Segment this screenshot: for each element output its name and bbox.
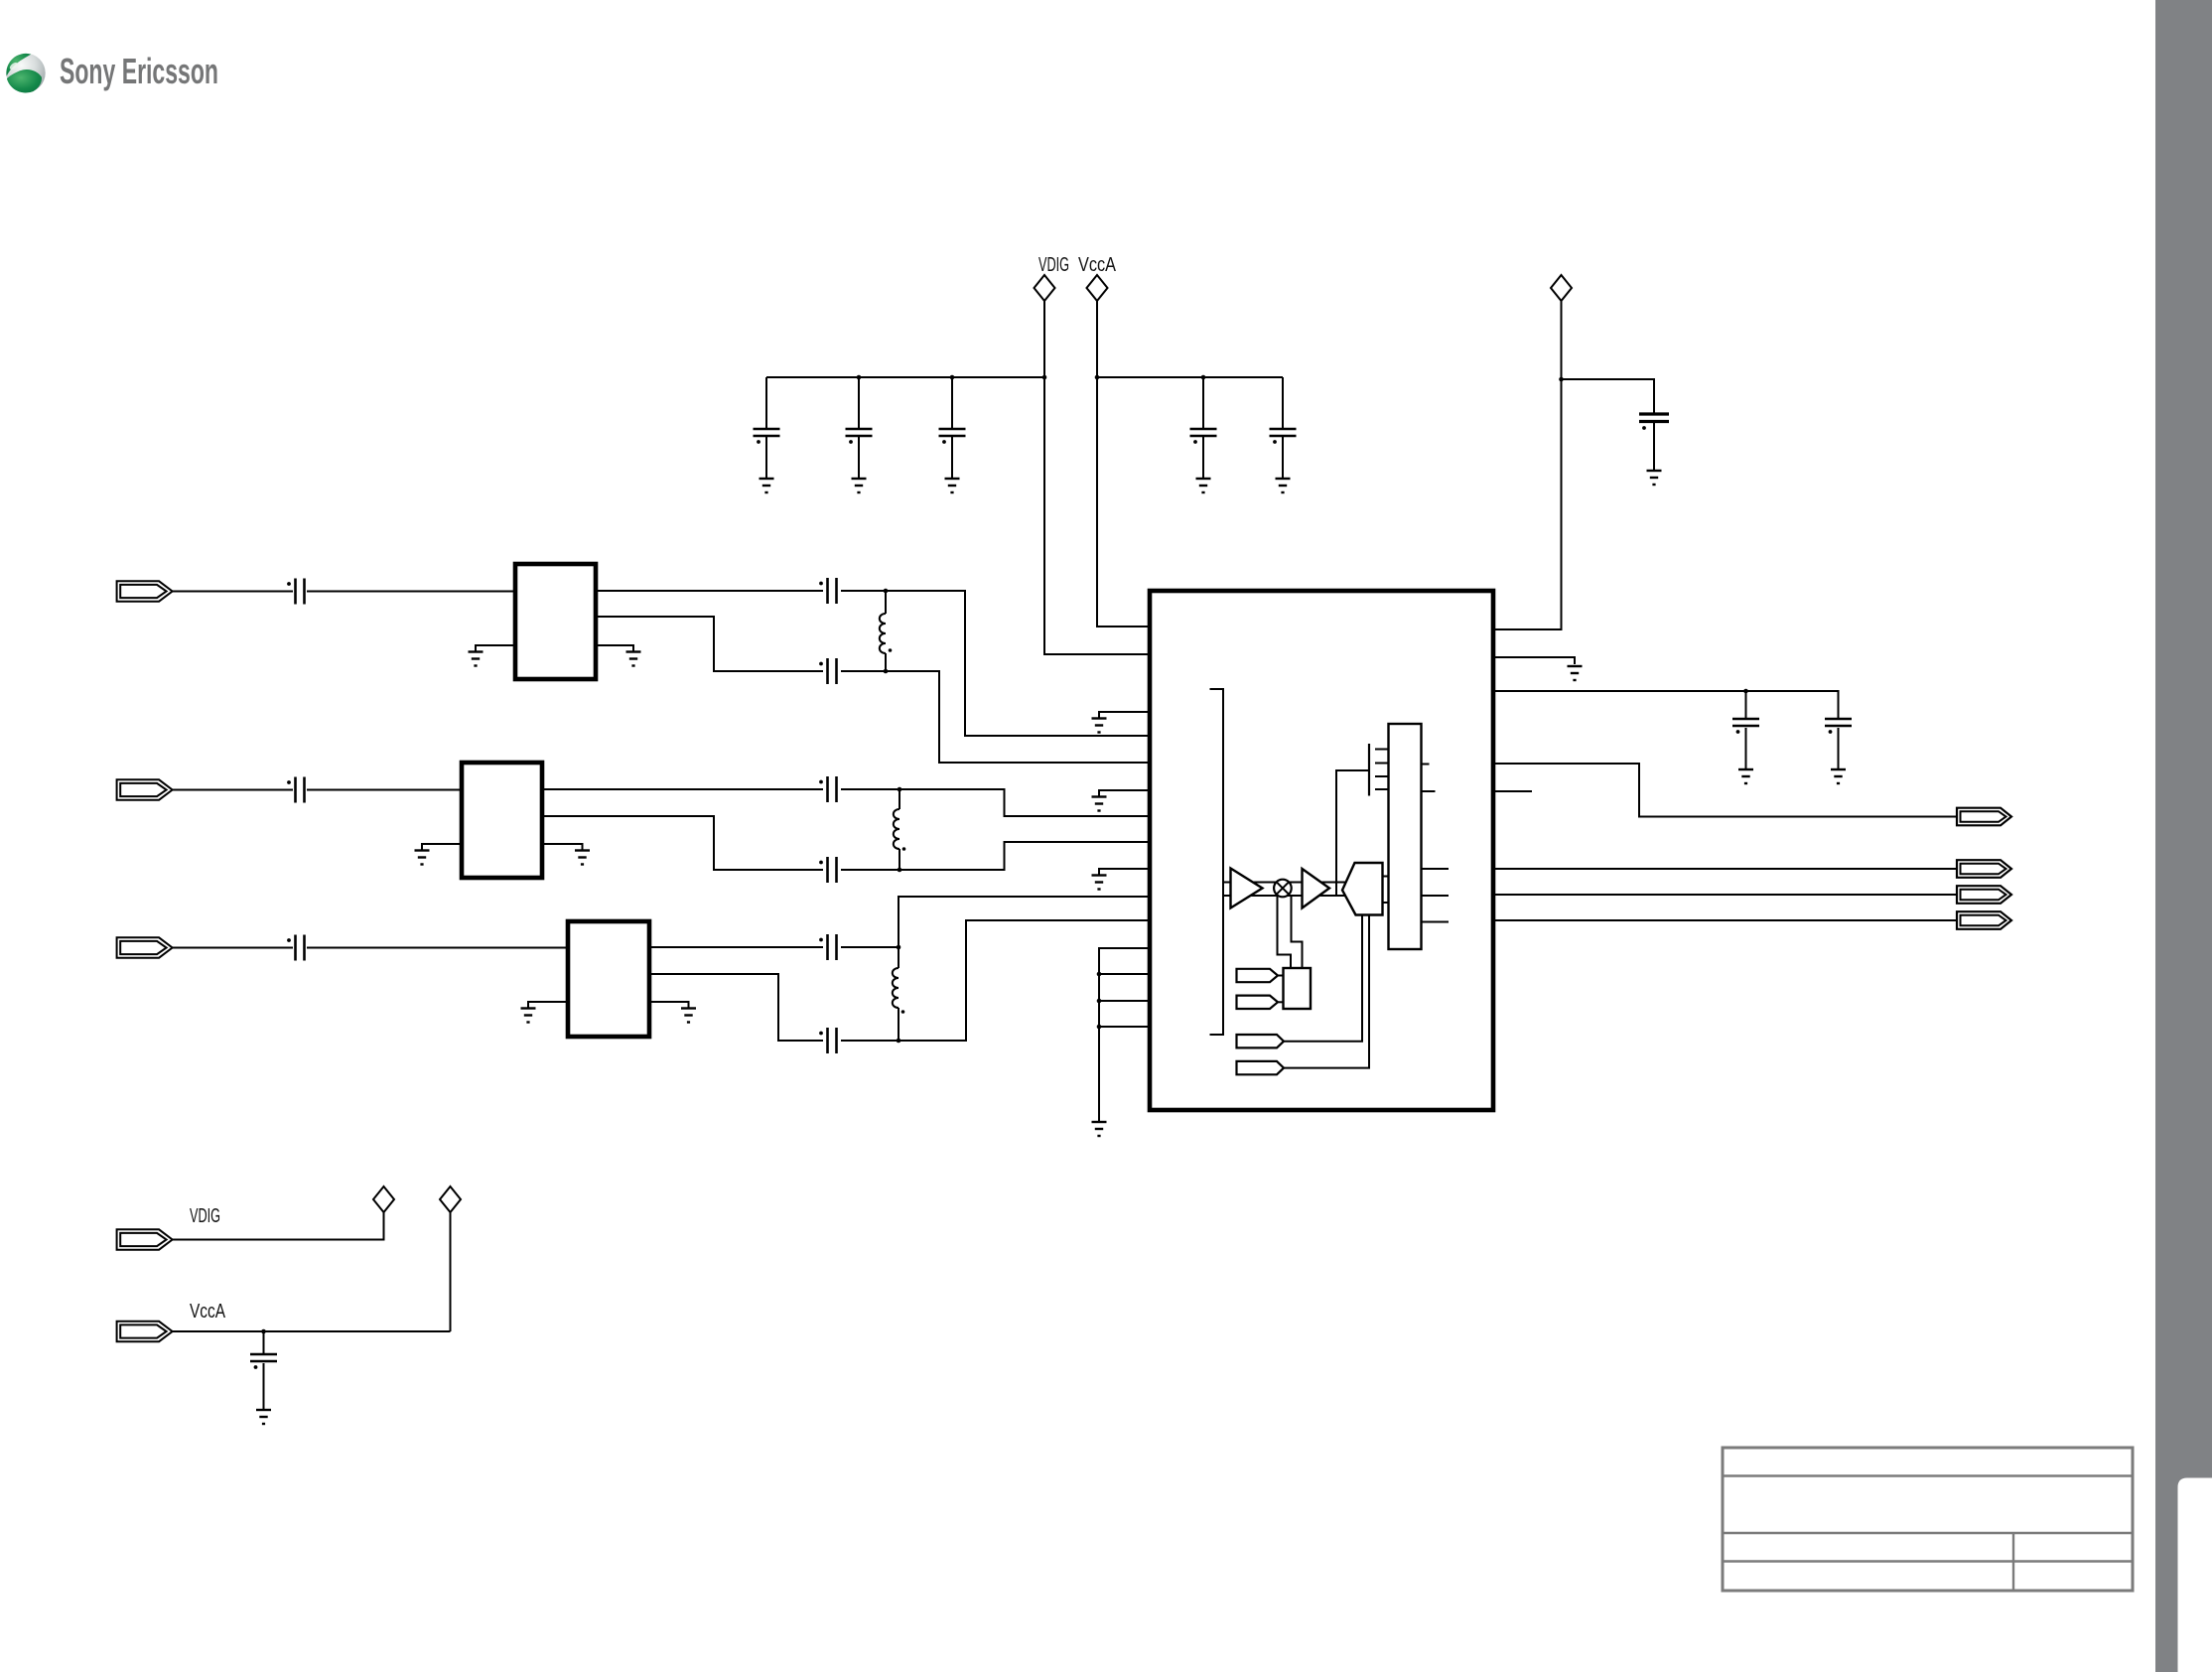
wire J1 to C7 [173, 591, 294, 593]
wire J9 to VccA diamond [173, 1330, 451, 1332]
junction node A [884, 589, 889, 594]
internal input bracket [1210, 689, 1224, 1035]
connector J8 (VDIG in) [117, 1229, 173, 1249]
internal signal wire (lower) [1223, 895, 1350, 897]
wire VccA decoupling bus [1097, 376, 1283, 378]
wire comb tick 1 [1375, 749, 1389, 751]
wire pentagon to register stub 2 [1383, 902, 1389, 904]
divider block U1b (small box) [1284, 968, 1312, 1009]
capacitor C17 [1825, 719, 1852, 769]
wire top-right power to IC pin [1494, 301, 1562, 629]
title block table [1723, 1448, 2133, 1591]
capacitor C11 (series, row 2 top) [819, 776, 836, 802]
ground (T2 left) [415, 851, 430, 865]
amplifier A1 (buffer triangle) [1231, 869, 1263, 908]
op-amp U1 (RF front-end IC body) [1150, 591, 1493, 1110]
power symbol VccA diamond (top) [1087, 275, 1108, 301]
wire IC grounded pin bus [1099, 948, 1150, 1122]
capacitor C12 (series, row 2 bottom) [819, 857, 836, 883]
internal signal wire (upper) [1223, 882, 1350, 884]
ground (T1 left) [469, 652, 484, 666]
wire node F to IC pin RF3- [899, 920, 1150, 1041]
svg-text:VDIG: VDIG [190, 1205, 220, 1227]
wire IC left ground stub 3 [1099, 869, 1150, 876]
ground (below C18) [256, 1410, 271, 1424]
mixer X1 (circle-cross) [1274, 880, 1292, 898]
wire IC out1 to J4 [1494, 764, 1957, 817]
capacitor C13 (series, row 3) [287, 935, 304, 961]
wire T3 pin to right ground [649, 1002, 689, 1009]
junction on VccA bus [1095, 375, 1206, 380]
wire J8 to VDIG diamond [173, 1212, 384, 1240]
wire bus tap 2 [1099, 1000, 1150, 1002]
wire register to IC edge 3 [1422, 921, 1450, 923]
wire C15 to node F [841, 1040, 899, 1042]
wire branch to C6 [1562, 379, 1655, 414]
junction node C [898, 787, 902, 792]
inductor L1 (row 1) [880, 591, 893, 671]
capacitor C1 (VDIG decoupling) [754, 377, 780, 479]
svg-text:VccA: VccA [1078, 254, 1117, 276]
power symbol VccA diamond (bottom) [440, 1186, 461, 1212]
capacitor C5 (VccA decoupling) [1270, 377, 1297, 479]
wire register to IC edge 2 [1422, 895, 1450, 897]
ground (below C5) [1276, 479, 1291, 492]
capacitor C15 (series, row 3 bottom) [819, 1028, 836, 1053]
wire VccA diamond drop [450, 1212, 452, 1332]
connector J2 (input 2) [117, 779, 173, 799]
Sony Ericsson logo text [60, 51, 218, 91]
wire node C to IC pin RF2+ [899, 789, 1150, 816]
junction on top-right power wire [1559, 377, 1564, 382]
wire VDIG vertical to IC pin [1044, 301, 1150, 654]
capacitor C4 (VccA decoupling) [1190, 377, 1217, 479]
internal tag 4 [1237, 1061, 1285, 1074]
wire IC VCO pin to C16/C17 [1494, 691, 1839, 719]
internal tag 3 [1237, 1035, 1285, 1047]
wire VDIG decoupling bus [766, 376, 1044, 378]
connector J5 (output 2) [1957, 860, 2011, 878]
filter block (pentagon) [1342, 863, 1383, 915]
wire IC out3 to J6 [1494, 894, 1957, 896]
wire C10 to T2 [307, 789, 462, 791]
wire C7 to T1 [307, 591, 515, 593]
capacitor C10 (series, row 2) [287, 777, 304, 803]
wire C13 to T3 [307, 947, 568, 949]
wire T1 pin to left ground [476, 645, 515, 652]
wire IC out2 to J5 [1494, 868, 1957, 870]
internal tag 2 [1237, 996, 1279, 1009]
wire IC left ground stub 1 [1099, 712, 1150, 719]
junction on VDIG bus [857, 375, 1047, 380]
wire T2 pin to right ground [542, 844, 583, 851]
wire C14 to node E [841, 946, 899, 948]
capacitor C2 (VDIG decoupling) [846, 377, 873, 479]
junction on VCO wire [1743, 689, 1748, 694]
junction node F [897, 1039, 901, 1044]
wire bus tap 3 [1099, 1026, 1150, 1028]
internal bus bar (comb) [1368, 744, 1370, 796]
wire C11 to node C [841, 788, 899, 790]
capacitor C16 [1732, 691, 1759, 769]
register block U1a (tall rectangle) [1389, 724, 1422, 949]
ground (below C1) [760, 479, 774, 492]
connector J1 (input 1) [117, 581, 173, 601]
wire node D to IC pin RF2- [899, 842, 1150, 870]
wire register to IC edge 1 [1422, 868, 1450, 870]
wire comb feedback [1336, 770, 1369, 896]
wire pentagon to register stub 1 [1383, 876, 1389, 878]
wire node A to IC pin RF1+ [886, 591, 1150, 736]
wire register stub right 1 [1422, 764, 1430, 766]
window sidebar (gray) [2155, 0, 2212, 1672]
wire T1 out+ to C8 [596, 590, 823, 592]
ground (T3 right) [681, 1009, 696, 1023]
ground (IC left 2) [1092, 797, 1107, 811]
ground (IC left 1) [1092, 719, 1107, 733]
transformer T1 (balun, row 1) [515, 564, 596, 679]
ground (IC left 3) [1092, 876, 1107, 890]
ground (T2 right) [575, 851, 590, 865]
wire comb tick 3 [1375, 775, 1389, 777]
wire tag4 to pentagon [1284, 915, 1369, 1068]
power symbol diamond (top right) [1551, 275, 1572, 301]
wire register stub right 2 [1422, 790, 1436, 792]
ground (below C6) [1647, 471, 1662, 485]
wire C9 to node B [841, 670, 886, 672]
wire IC out4 to J7 [1494, 919, 1957, 921]
node VDIG label (bottom) [190, 1205, 220, 1227]
capacitor C8 (series, row 1 top) [819, 578, 836, 604]
wire comb tick 2 [1375, 763, 1389, 765]
connector J7 (output 4) [1957, 911, 2011, 929]
wire T3 out+ to C14 [649, 946, 823, 948]
ground (T1 right) [626, 652, 641, 666]
ground (below C3) [945, 479, 960, 492]
wire tag1 to divider [1278, 975, 1284, 977]
wire tag2 to divider [1278, 1001, 1284, 1003]
inductor L3 (row 3) [893, 947, 904, 1041]
ground (below C2) [852, 479, 867, 492]
wire IC right ground stub [1494, 657, 1575, 664]
junction on grounded bus [1097, 972, 1102, 1030]
wire node B to IC pin RF1- [886, 671, 1150, 763]
transformer T3 (balun, row 3) [568, 921, 649, 1037]
ground (T3 left) [521, 1009, 536, 1023]
wire T2 pin to left ground [422, 844, 462, 851]
capacitor C9 (series, row 1 bottom) [819, 658, 836, 684]
capacitor C7 (series, row 1) [287, 579, 304, 605]
ground (below C17) [1831, 769, 1846, 783]
internal tag 1 [1237, 969, 1279, 982]
node VccA label (top) [1078, 254, 1117, 276]
svg-text:Sony Ericsson: Sony Ericsson [60, 51, 218, 91]
wire bus tap 1 [1099, 973, 1150, 975]
ground (below C16) [1738, 769, 1753, 783]
wire J3 to C13 [173, 947, 294, 949]
wire mixer LO left [1278, 896, 1292, 968]
capacitor C3 (VDIG decoupling) [939, 377, 966, 479]
junction node E [897, 945, 901, 950]
ground (below C4) [1196, 479, 1211, 492]
capacitor C14 (series, row 3 top) [819, 934, 836, 960]
junction node D [898, 868, 902, 873]
wire IC left ground stub 2 [1099, 790, 1150, 797]
wire C8 to node A [841, 590, 886, 592]
wire T1 out- segment [596, 617, 823, 671]
wire IC stub pin (right) [1494, 790, 1532, 792]
ground (IC right) [1568, 666, 1583, 680]
power symbol VDIG diamond (top) [1035, 275, 1055, 301]
transformer T2 (balun, row 2) [462, 763, 542, 878]
wire J2 to C10 [173, 789, 294, 791]
junction node B [884, 669, 889, 674]
wire T3 out- segment [649, 974, 823, 1041]
connector J9 (VccA in) [117, 1322, 173, 1341]
node VccA label (bottom) [190, 1301, 226, 1323]
wire T1 pin to right ground [596, 645, 633, 652]
wire T2 out+ to C11 [542, 788, 823, 790]
capacitor C18 (VccA bulk) [250, 1331, 277, 1410]
wire comb tick 4 [1375, 788, 1389, 790]
wire node E to IC pin RF3+ [899, 897, 1150, 947]
node VDIG label (top) [1038, 254, 1069, 276]
svg-text:VDIG: VDIG [1038, 254, 1069, 276]
wire T3 pin to left ground [528, 1002, 568, 1009]
wire T2 out- segment [542, 816, 823, 870]
svg-text:VccA: VccA [190, 1301, 226, 1323]
wire VccA vertical to IC pin [1097, 301, 1150, 627]
inductor L2 (row 2) [894, 789, 905, 870]
wire mixer LO right [1292, 896, 1303, 968]
wire tag3 to pentagon [1284, 915, 1362, 1042]
amplifier A2 (buffer triangle) [1303, 869, 1330, 908]
Sony Ericsson logo ball [6, 54, 45, 93]
capacitor C6 (top right) [1639, 414, 1669, 471]
ground (below IC bus) [1092, 1122, 1107, 1136]
connector J3 (input 3) [117, 937, 173, 957]
connector J4 (output 1) [1957, 808, 2011, 826]
junction on VccA wire [261, 1329, 266, 1334]
connector J6 (output 3) [1957, 886, 2011, 904]
power symbol VDIG diamond (bottom) [373, 1186, 394, 1212]
wire C12 to node D [841, 869, 899, 871]
